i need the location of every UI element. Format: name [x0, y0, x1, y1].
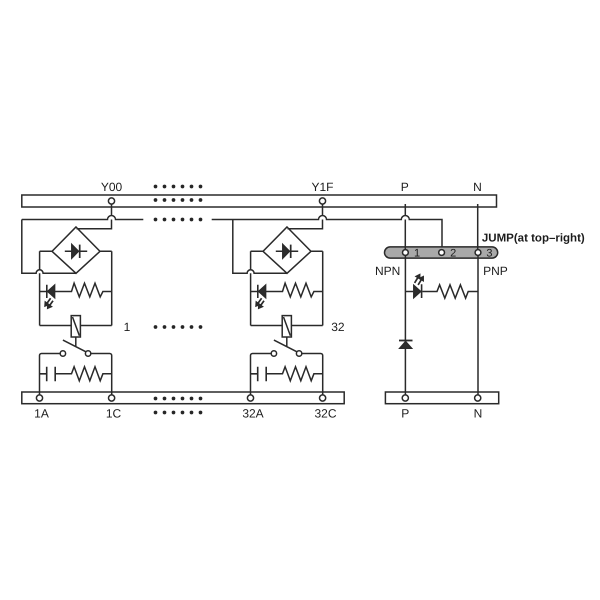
svg-text:JUMP(at top–right): JUMP(at top–right) — [482, 233, 585, 245]
svg-text:NPN: NPN — [375, 264, 400, 278]
svg-text:N: N — [474, 407, 483, 421]
svg-text:32A: 32A — [242, 407, 263, 421]
svg-text:P: P — [401, 407, 409, 421]
svg-text:1C: 1C — [106, 407, 122, 421]
svg-text:1: 1 — [414, 247, 420, 259]
svg-text:1: 1 — [124, 320, 131, 334]
svg-text:PNP: PNP — [483, 264, 508, 278]
svg-text:Y00: Y00 — [101, 180, 123, 194]
svg-text:32C: 32C — [314, 407, 336, 421]
svg-text:N: N — [473, 180, 482, 194]
svg-text:2: 2 — [450, 247, 456, 259]
svg-text:3: 3 — [486, 247, 492, 259]
svg-text:32: 32 — [331, 320, 345, 334]
svg-text:1A: 1A — [34, 407, 49, 421]
svg-text:P: P — [401, 180, 409, 194]
svg-text:Y1F: Y1F — [311, 180, 333, 194]
